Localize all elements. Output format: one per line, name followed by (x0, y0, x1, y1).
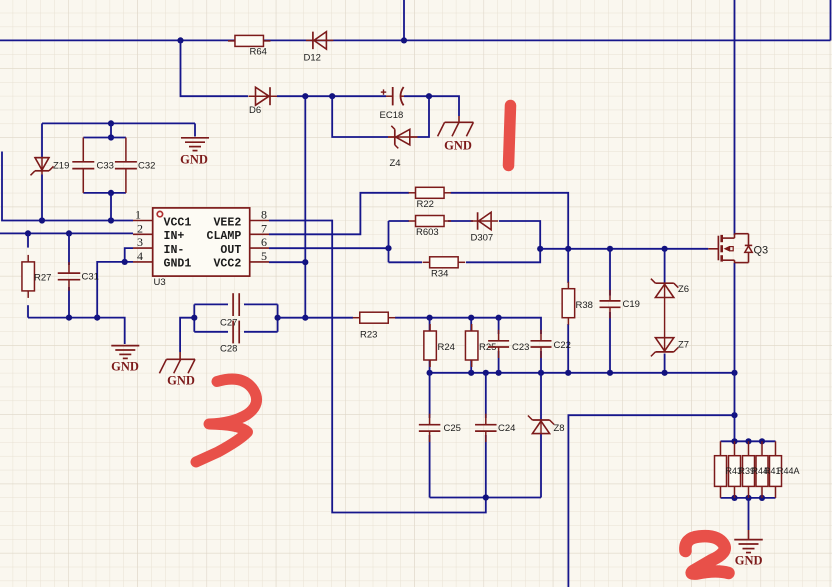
pin 5 VCC2 (213, 249, 269, 271)
node rail B R24 (427, 370, 433, 376)
capacitor C23 (488, 330, 529, 358)
zener Z4 (388, 126, 418, 169)
wire C19 branch (609, 249, 611, 296)
svg-text:CLAMP: CLAMP (207, 230, 242, 243)
svg-text:IN-: IN- (164, 244, 185, 257)
wire pin6 OUT (269, 247, 389, 249)
svg-text:C28: C28 (220, 344, 237, 355)
node pin6 junction (385, 245, 391, 251)
svg-text:D12: D12 (304, 53, 321, 64)
svg-text:VCC2: VCC2 (213, 258, 241, 271)
node sense join (731, 412, 737, 418)
wire pin7 CLAMP to R22 (269, 193, 409, 235)
node bank bottom c (759, 495, 765, 501)
wire C24 branch (485, 373, 487, 418)
pin 8 VEE2 (213, 208, 269, 230)
wire C27 net to pin5 drop (278, 317, 306, 319)
wire pin3 IN- (125, 248, 133, 262)
svg-text:C33: C33 (97, 161, 114, 172)
transistor Q3 (708, 234, 768, 263)
capacitor C32 (115, 138, 156, 193)
svg-text:7: 7 (261, 221, 267, 235)
ground GND (slashed, middle) (159, 352, 195, 387)
wire R27 bottom lead (27, 305, 29, 317)
wire Z6-Z7 middle (664, 298, 666, 338)
wire R24 bottom lead (429, 360, 431, 373)
wire source sense line (568, 415, 734, 587)
wire left edge drop (2, 152, 133, 221)
svg-text:Z4: Z4 (390, 158, 401, 169)
node gate rail C19 (607, 246, 613, 252)
svg-text:GND: GND (180, 153, 208, 167)
wire D6 cathode row (277, 95, 386, 97)
svg-text:C19: C19 (623, 299, 640, 310)
wire C25 bottom (429, 435, 431, 498)
node rail B right end (731, 370, 737, 376)
svg-text:Z19: Z19 (53, 161, 69, 172)
node top rail x180 (177, 37, 183, 43)
resistor R34 (423, 257, 466, 280)
svg-text:C27: C27 (220, 318, 237, 329)
node rail B C19 (607, 370, 613, 376)
ground GND (earth, top-left) (180, 138, 209, 167)
wire Z8 bottom lead (540, 434, 542, 498)
node gnd bus C31 (66, 315, 72, 321)
node caps box bottom (108, 190, 114, 196)
node rail B Z8 (538, 370, 544, 376)
wire C23 bottom lead (498, 351, 500, 373)
node gate rail R38 (565, 246, 571, 252)
wire top-right stub (830, 0, 832, 40)
svg-text:R38: R38 (576, 300, 593, 311)
wire C28 bottom rail right (244, 331, 278, 333)
node bus1 Z19 (39, 217, 45, 223)
svg-text:Z6: Z6 (678, 284, 689, 295)
wire C19 branch bottom (609, 312, 611, 373)
wire Z4 branch left (332, 96, 388, 137)
svg-text:1: 1 (135, 208, 141, 222)
capacitor C31 (58, 262, 99, 291)
resistor R64 (228, 35, 271, 57)
svg-text:GND: GND (167, 373, 195, 387)
zener Z19 (31, 158, 70, 176)
wire Q3 source down (734, 263, 736, 441)
svg-text:6: 6 (261, 235, 267, 249)
wire Z4 branch right (418, 96, 430, 137)
zener Z6 (651, 279, 689, 298)
node D6 row x305 (302, 93, 308, 99)
wire bank gnd stem (748, 498, 750, 530)
wire bank bottom rail (721, 497, 776, 499)
diode D6 (249, 87, 278, 116)
resistor R27 (22, 255, 51, 298)
wire caps box bottom rail (83, 192, 126, 194)
wire R603 left drop (388, 221, 390, 262)
capacitor C25 (419, 414, 461, 442)
svg-text:3: 3 (137, 235, 143, 249)
node bus2 R27 (25, 230, 31, 236)
svg-text:C24: C24 (498, 423, 515, 434)
node top rail x404 (401, 37, 407, 43)
wire rail to D6 row (181, 40, 249, 96)
pin 3 IN- (133, 235, 184, 257)
capacitor C22 (531, 330, 571, 358)
wire C28 bottom rail left (194, 331, 228, 333)
svg-text:R64: R64 (250, 47, 267, 58)
svg-text:2: 2 (137, 221, 143, 235)
capacitor C28 (220, 321, 239, 355)
resistor R22 (409, 187, 452, 210)
pin 1 indicator dot (157, 211, 162, 216)
resistor R25 (465, 324, 496, 367)
wire caps box top drop (110, 123, 112, 137)
capacitor C24 (475, 414, 515, 442)
wire C27 net to gnd (180, 318, 194, 352)
pin 6 OUT (220, 235, 269, 257)
wire caps box bottom drop (110, 193, 112, 221)
svg-text:C25: C25 (444, 423, 461, 434)
svg-text:R24: R24 (438, 342, 455, 353)
svg-text:4: 4 (137, 249, 143, 263)
wire Z7 bottom lead (664, 354, 666, 373)
node top row x111 (108, 120, 114, 126)
wire C23 top lead (498, 318, 500, 334)
wire R38 branch bottom (567, 324, 569, 373)
wire C25 branch (429, 373, 431, 418)
node rail B C23 (496, 370, 502, 376)
wire pin8 VEE2 down-around (269, 221, 486, 513)
svg-text:R27: R27 (34, 273, 51, 284)
wire R25 top lead (470, 318, 472, 331)
wire R25 bottom lead (470, 360, 472, 373)
node bus1 caps (108, 217, 114, 223)
wire R38 branch top (567, 249, 569, 283)
node C27 box left (191, 315, 197, 321)
node C27 box right (275, 315, 281, 321)
resistor R24 (424, 324, 455, 367)
svg-text:U3: U3 (154, 277, 166, 288)
wire rail A R23 row (305, 317, 353, 319)
svg-text:GND: GND (111, 360, 139, 374)
wire R24 top lead (429, 318, 431, 331)
svg-text:Z7: Z7 (678, 340, 689, 351)
resistor R23 (353, 312, 396, 340)
wire R22 to gate rail (451, 193, 569, 249)
wire pin5 VCC2 (269, 261, 305, 263)
wire Q3 drain from top (734, 0, 736, 235)
red annotation mark 1 (509, 106, 511, 166)
svg-text:IN+: IN+ (164, 230, 185, 243)
node rail A C23 (496, 315, 502, 321)
wire C22 bottom lead (540, 351, 542, 373)
svg-text:D307: D307 (471, 232, 494, 243)
wire pin4 GND1 (97, 262, 133, 318)
diode D12 (304, 32, 334, 64)
svg-text:5: 5 (261, 249, 267, 263)
capacitor C19 (600, 290, 640, 318)
wire Z19 upper lead (41, 123, 43, 157)
resistor R603 (409, 216, 452, 239)
svg-text:Z8: Z8 (554, 423, 565, 434)
node EC18 right (426, 93, 432, 99)
node caps bottom rail (483, 494, 489, 500)
svg-text:C32: C32 (138, 161, 155, 172)
node bus2 C31 (66, 230, 72, 236)
svg-text:GND: GND (444, 139, 472, 153)
wire C27 box right (277, 304, 279, 331)
wire gnd bus bottom-left (28, 318, 125, 344)
pin 1 VCC1 (133, 208, 191, 230)
wire R603 row (389, 220, 410, 222)
svg-text:GND: GND (735, 554, 763, 568)
op-amp U3 body (153, 208, 250, 276)
wire Z19 top row (42, 122, 195, 124)
red annotation mark 2 (685, 536, 728, 574)
wire C31 bottom lead (68, 287, 70, 318)
svg-text:R34: R34 (431, 269, 448, 280)
wire C27 box left (193, 304, 195, 331)
red annotation mark 3 (196, 379, 257, 462)
wire top rail (0, 39, 831, 41)
wire R27 top lead (27, 233, 29, 247)
node rail B Z6Z7 (662, 370, 668, 376)
resistor R38 (562, 282, 593, 325)
svg-text:R23: R23 (360, 330, 377, 341)
svg-text:D6: D6 (249, 105, 261, 116)
node D6 row x332 (329, 93, 335, 99)
wire vertical x305 to pin5/C27 (304, 96, 306, 318)
wire C31 top lead (68, 233, 70, 265)
capacitor C27 (220, 293, 239, 328)
svg-text:R44A: R44A (777, 466, 800, 476)
pin 7 CLAMP (207, 221, 269, 243)
ground GND (earth, bottom-right) (734, 530, 763, 568)
node C27 net junction (302, 315, 308, 321)
svg-text:C22: C22 (554, 340, 571, 351)
node caps box top (108, 134, 114, 140)
node gnd bus pin4 (94, 315, 100, 321)
svg-text:EC18: EC18 (380, 110, 404, 121)
diode D307 (471, 212, 499, 243)
wire top row gnd stem (194, 123, 196, 136)
wire C24 bottom (485, 435, 487, 498)
node gate rail tap (537, 246, 543, 252)
wire caps bottom rail (430, 497, 541, 499)
pin 2 IN+ (133, 221, 184, 243)
wire bank top rail (721, 440, 776, 442)
wire Z19 lower lead (41, 175, 43, 221)
ground GND (earth, bottom-left) (111, 346, 139, 374)
node rail A R25 (468, 315, 474, 321)
svg-text:C31: C31 (82, 272, 99, 283)
node rail B R38 (565, 370, 571, 376)
zener Z7 (651, 338, 689, 357)
wire rail A to C22 (395, 318, 541, 334)
wire rail B (430, 372, 735, 374)
wire EC18 to gnd corner (404, 96, 459, 116)
wire D307 to drop x540 (466, 221, 540, 262)
wire caps box top rail (83, 137, 126, 139)
node bank bottom b (745, 495, 751, 501)
wire C27 top rail left (194, 303, 228, 305)
wire Z6 top lead (664, 249, 666, 284)
svg-text:R22: R22 (417, 199, 434, 210)
svg-text:GND1: GND1 (164, 258, 192, 271)
svg-text:Q3: Q3 (754, 245, 769, 257)
wire gate rail (540, 248, 708, 250)
node bank bottom a (731, 495, 737, 501)
svg-text:VEE2: VEE2 (213, 216, 241, 229)
svg-text:8: 8 (261, 208, 267, 222)
U3 designator (154, 277, 166, 288)
ground GND (slashed, top) (438, 116, 474, 153)
svg-text:R603: R603 (416, 227, 439, 238)
resistor bank labels (726, 466, 800, 476)
node rail A R24 (427, 315, 433, 321)
svg-text:C23: C23 (512, 342, 529, 353)
wire pin2 bus (0, 232, 133, 234)
node bank top a (731, 438, 737, 444)
pin 4 GND1 (133, 249, 191, 271)
capacitor EC18 (380, 87, 405, 121)
svg-text:OUT: OUT (220, 244, 241, 257)
node gate rail Z6 (662, 246, 668, 252)
node rail B R25 (468, 370, 474, 376)
node pin3-4 join (122, 259, 128, 265)
svg-text:VCC1: VCC1 (164, 216, 192, 229)
capacitor C33 (72, 138, 114, 193)
wire top drop at x404 (403, 0, 405, 40)
wire R603-D307 bridge (448, 220, 473, 222)
node bank top b (745, 438, 751, 444)
zener Z8 (528, 416, 565, 435)
node pin5 junction (302, 259, 308, 265)
resistor bank R43 R39 R44 R41 R44A (715, 441, 782, 498)
node bank top c (759, 438, 765, 444)
wire R34 left lead row (389, 261, 423, 263)
wire C27 top rail right (244, 303, 278, 305)
wire Z8 top lead (540, 373, 542, 420)
node rail B C24 (483, 370, 489, 376)
